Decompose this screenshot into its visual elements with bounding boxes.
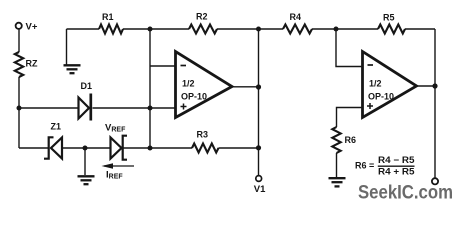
- resistor R2: [189, 25, 217, 34]
- zener VREF: [111, 136, 128, 160]
- wire D1 row: [19, 107, 176, 109]
- svg-text:R5: R5: [383, 12, 395, 22]
- svg-text:R4 − R5: R4 − R5: [378, 155, 415, 165]
- svg-text:D1: D1: [81, 81, 93, 91]
- resistor R1: [99, 25, 123, 34]
- node junction Z1/VREF/gnd: [83, 146, 88, 151]
- ground (under Z1/VREF node): [84, 148, 86, 175]
- wire output vertical x=258.5 down to V1: [258, 29, 260, 175]
- svg-text:R1: R1: [102, 12, 114, 22]
- svg-text:R3: R3: [197, 129, 209, 139]
- resistor R4: [283, 25, 312, 34]
- ground (left, under R1 left end): [64, 65, 81, 73]
- wire V+ to RZ: [18, 29, 20, 52]
- svg-text:OP-10: OP-10: [181, 92, 207, 102]
- svg-text:R4 + R5: R4 + R5: [378, 166, 415, 176]
- node junction left rail / D1: [17, 106, 22, 111]
- node U1 output junction: [256, 84, 261, 89]
- svg-text:R6: R6: [345, 135, 357, 145]
- node junction D1 / U1+: [148, 106, 153, 111]
- wire to U1 inverting input: [150, 65, 176, 67]
- wire top rail y=29: [67, 28, 436, 30]
- diode D1: [79, 94, 91, 121]
- wire Z1 row: [19, 147, 259, 149]
- terminal output (right, over watermark): [432, 178, 438, 184]
- svg-text:OP-10: OP-10: [368, 92, 394, 102]
- wire left rail RZ down to Z1 row corner: [18, 77, 20, 148]
- node junction R2/R4/output: [256, 27, 261, 32]
- node junction R4/R5/U2-: [334, 27, 339, 32]
- terminal V1: [256, 176, 262, 182]
- wire U1 output: [232, 86, 259, 88]
- op-amp U1: [176, 52, 233, 118]
- svg-text:R6 =: R6 =: [355, 161, 374, 171]
- wire from R4 junction down to U2 inverting input: [336, 29, 363, 67]
- resistor RZ: [15, 52, 23, 77]
- current arrow IREF: [104, 165, 134, 167]
- terminal V+: [16, 23, 22, 29]
- svg-text:V1: V1: [254, 184, 266, 195]
- zener Z1: [44, 137, 62, 158]
- resistor R6: [332, 127, 340, 153]
- svg-text:R4: R4: [290, 12, 302, 22]
- svg-text:RZ: RZ: [26, 59, 38, 69]
- wire right vertical x=435 from R5 to output terminal: [434, 29, 436, 178]
- resistor R5: [378, 25, 405, 34]
- resistor R3: [192, 144, 219, 153]
- svg-text:1/2: 1/2: [182, 79, 195, 89]
- op-amp U2: [363, 52, 417, 118]
- svg-text:SeekIC.com: SeekIC.com: [358, 182, 453, 204]
- node junction R1/R2/U1-: [148, 27, 153, 32]
- wire U2 noninverting input to R6: [337, 108, 363, 128]
- node U2 output junction: [432, 83, 437, 88]
- ground (under R6): [336, 153, 338, 177]
- svg-text:1/2: 1/2: [369, 79, 382, 89]
- svg-text:V+: V+: [26, 21, 38, 32]
- wire feedback vertical x=150: [149, 29, 151, 148]
- svg-text:Z1: Z1: [51, 121, 62, 131]
- wire from top-left corner down to ground: [66, 29, 68, 65]
- node R3 / V1 junction: [256, 145, 261, 150]
- wire U2 output: [417, 85, 436, 87]
- svg-text:R2: R2: [196, 12, 208, 22]
- node junction VREF/R3: [148, 146, 153, 151]
